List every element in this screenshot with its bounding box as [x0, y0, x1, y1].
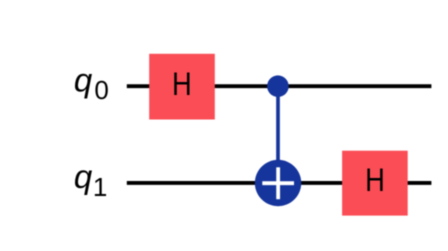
wire CX vertical link [276, 86, 280, 183]
wire q1 [127, 181, 432, 185]
gate H2 on q1 [342, 151, 408, 216]
svg-text:H: H [365, 163, 385, 198]
wire q0 [127, 84, 432, 88]
node q0 label [74, 62, 109, 105]
CX control dot on q0 [267, 75, 289, 97]
svg-text:q: q [74, 158, 93, 195]
svg-text:q: q [74, 62, 93, 99]
svg-text:H: H [172, 67, 192, 102]
node q1 label [74, 158, 107, 202]
CX target on q1 [255, 160, 301, 206]
gate H1 on q0 [149, 54, 215, 120]
svg-text:1: 1 [93, 172, 107, 202]
svg-text:0: 0 [94, 75, 108, 105]
